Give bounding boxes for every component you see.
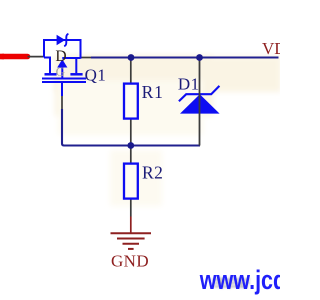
svg-text:R1: R1 [142, 82, 164, 102]
svg-text:G: G [56, 64, 65, 79]
svg-text:Q1: Q1 [85, 65, 107, 84]
svg-text:R2: R2 [142, 163, 163, 183]
svg-text:www.jcdz: www.jcdz [199, 266, 280, 296]
svg-text:D: D [55, 48, 66, 65]
svg-text:VDD: VDD [262, 39, 280, 58]
svg-text:D1: D1 [178, 74, 200, 93]
svg-text:GND: GND [111, 252, 149, 271]
